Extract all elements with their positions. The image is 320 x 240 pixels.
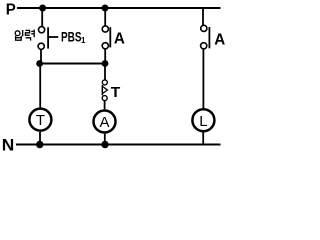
timer contact bottom circle — [102, 96, 107, 101]
pushbutton PBS1 top contact circle — [39, 27, 45, 33]
svg-text:P: P — [6, 2, 16, 19]
svg-text:T: T — [36, 112, 45, 129]
svg-text:A: A — [114, 30, 125, 47]
label 입력 (hand-drawn hangul) glyph 력 — [25, 30, 34, 41]
timer contact top circle — [102, 80, 107, 85]
svg-text:PBS: PBS — [61, 28, 82, 44]
wire T coil to N rail — [39, 132, 41, 145]
wire branch1 below PBS — [40, 49, 42, 63]
relay contact A (branch3) bottom circle — [201, 43, 207, 49]
junction dot P rail branch 1 — [39, 5, 46, 12]
wire timer contact to A coil — [104, 101, 106, 110]
wire branch3 top — [202, 8, 204, 25]
label 입력 (hand-drawn hangul) glyph 입 — [15, 30, 23, 40]
wire branch1 top — [41, 8, 43, 27]
wire L coil to N rail — [202, 132, 204, 144]
relay contact A (branch2) top circle — [102, 26, 108, 32]
junction dot middle rail left — [36, 60, 43, 67]
junction dot middle rail right — [102, 60, 109, 67]
relay contact A (branch2) movable bar — [109, 27, 111, 47]
svg-text:N: N — [2, 136, 15, 154]
relay contact A (branch3) top circle — [201, 25, 207, 31]
relay contact A (branch3) movable bar — [208, 27, 210, 48]
junction dot P rail branch 2 — [102, 5, 109, 12]
wire branch2 contact to middle rail — [104, 49, 106, 64]
pushbutton PBS1 actuator stroke — [48, 36, 58, 38]
svg-text:A: A — [99, 114, 109, 131]
wire branch1 to T coil — [39, 64, 41, 108]
relay contact A (branch2) bottom circle — [102, 43, 108, 49]
junction dot N rail branch2 — [101, 141, 108, 148]
wire branch2 top — [104, 8, 106, 26]
lamp L circle — [192, 109, 214, 131]
junction dot N rail branch1 — [36, 141, 43, 148]
timer coil T circle — [29, 109, 51, 131]
svg-text:L: L — [199, 113, 207, 130]
wire branch3 contact to L coil — [202, 49, 204, 109]
timer contact movable bar — [101, 85, 103, 95]
wire A coil to N rail — [104, 134, 106, 145]
pushbutton PBS1 bottom contact circle — [38, 43, 44, 49]
svg-text:T: T — [111, 85, 121, 101]
svg-text:1: 1 — [81, 36, 86, 45]
wire middle rail — [40, 63, 106, 65]
wire N rail — [16, 144, 221, 146]
wire P rail — [17, 7, 221, 9]
relay coil A circle — [94, 111, 116, 133]
pushbutton PBS1 movable bar — [47, 27, 49, 48]
svg-text:A: A — [214, 32, 225, 49]
timer contact delay triangle — [102, 86, 107, 93]
wire branch2 middle rail to timer contact — [104, 64, 106, 80]
